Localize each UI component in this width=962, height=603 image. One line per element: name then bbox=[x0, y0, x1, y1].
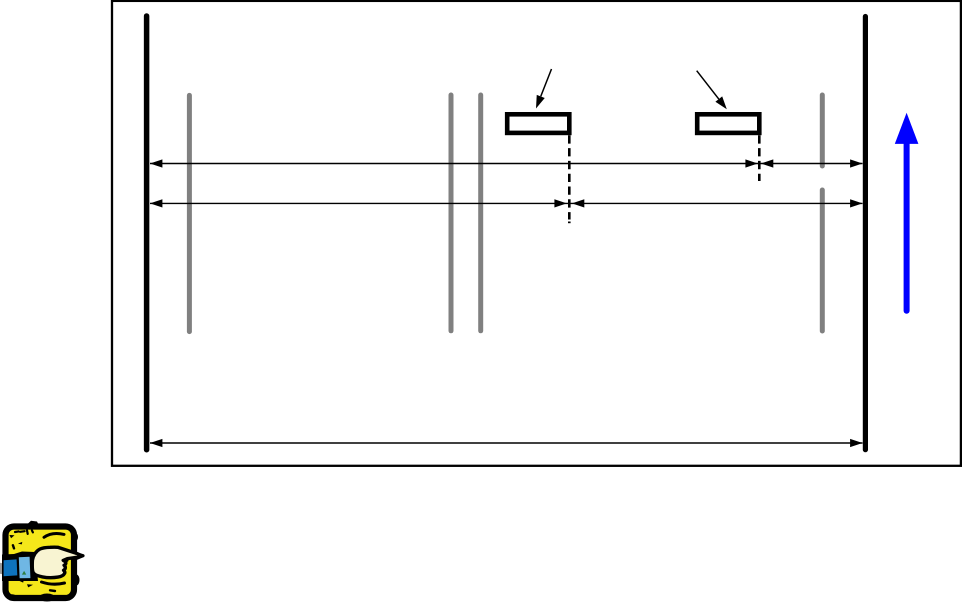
note icon: black band behind cuff bbox=[2, 552, 38, 582]
note icon: black rounded square with yellow fill bbox=[6, 527, 75, 599]
note icon: green triangle on cuff bbox=[22, 571, 26, 575]
note icon: border bumps bbox=[27, 521, 39, 526]
dimension line 2 bbox=[150, 202, 863, 204]
dimension line 3 (full width) bbox=[150, 442, 863, 444]
pointer arrow to rectangle 1 bbox=[541, 69, 552, 96]
gray label line 2 bbox=[449, 95, 454, 331]
dimension line 1 bbox=[150, 163, 863, 165]
gray label line 4 upper segment bbox=[820, 95, 825, 166]
note icon: gray shadow bbox=[0, 563, 4, 575]
dashed reference line from rectangle 2 bbox=[758, 135, 761, 181]
outer frame bbox=[112, 1, 961, 466]
blue feed direction arrow bbox=[904, 141, 910, 311]
dashed reference line from rectangle 1 bbox=[568, 135, 571, 219]
black mark rectangle 1 bbox=[507, 114, 569, 133]
note icon: dark blue cuff bbox=[4, 559, 18, 576]
note icon: hand bbox=[32, 547, 80, 577]
black mark rectangle 2 bbox=[697, 114, 759, 133]
gray label line 3 bbox=[478, 95, 483, 331]
gray label line 4 lower segment bbox=[820, 190, 825, 331]
note icon: black fingertip protrusion bbox=[72, 551, 85, 562]
note icon: scribble marks bottom bbox=[42, 582, 65, 584]
left media edge (thick black line) bbox=[144, 16, 150, 450]
note icon: scribble marks top bbox=[15, 530, 33, 534]
right media edge (thick black line) bbox=[863, 17, 868, 450]
gray label line 1 bbox=[187, 95, 192, 331]
note icon: swoosh top right bbox=[44, 533, 64, 537]
pointer arrow to rectangle 2 bbox=[697, 71, 719, 99]
note icon: notch between index finger and fist bbox=[63, 558, 70, 562]
note icon: light blue cuff bbox=[19, 557, 31, 579]
